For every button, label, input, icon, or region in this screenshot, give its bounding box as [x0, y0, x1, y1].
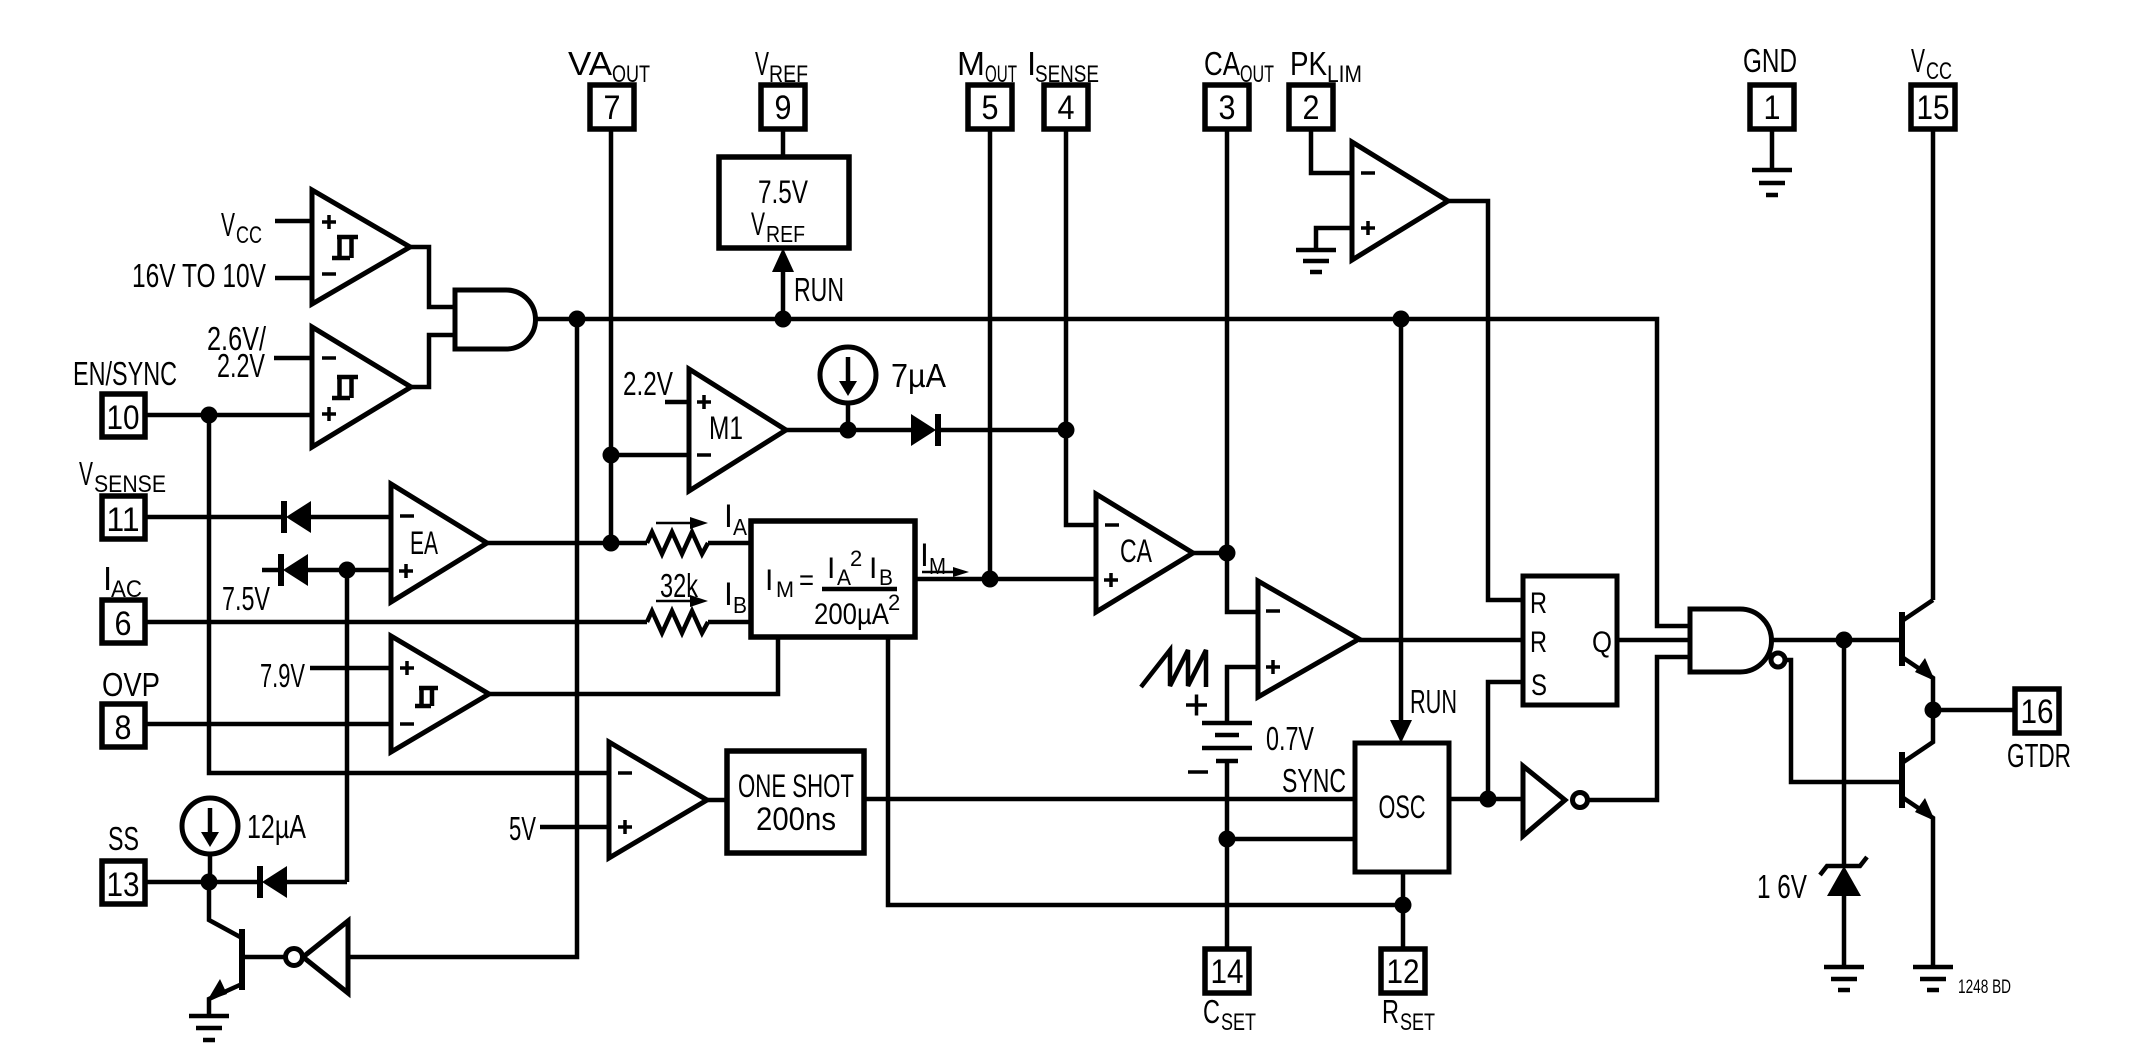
- svg-text:5: 5: [982, 89, 999, 127]
- svg-text:14: 14: [1211, 953, 1244, 991]
- wire pin8 OVP to comparator -: [145, 722, 391, 727]
- label - (battery): [1188, 770, 1208, 774]
- svg-text:Q: Q: [1592, 626, 1612, 659]
- transistor Q3 (SS discharge): [207, 882, 242, 1016]
- svg-text:200µA: 200µA: [814, 598, 889, 631]
- svg-text:7µA: 7µA: [891, 357, 946, 394]
- svg-text:M1: M1: [709, 410, 743, 446]
- svg-text:1: 1: [1764, 89, 1781, 127]
- wire battery to CSET pin14: [1225, 761, 1230, 949]
- wire inverter out to NAND input: [1588, 657, 1690, 800]
- svg-text:12µA: 12µA: [247, 808, 306, 845]
- wire EA output to resistor RA: [487, 541, 647, 546]
- svg-text:=: =: [799, 564, 814, 597]
- svg-text:SS: SS: [108, 820, 139, 857]
- pin 8 OVP: [102, 666, 160, 747]
- svg-text:REF: REF: [766, 221, 805, 247]
- wire OSC bottom to pin12 RSET: [1401, 872, 1406, 949]
- svg-text:1 6V: 1 6V: [1757, 868, 1807, 905]
- svg-text:GND: GND: [1743, 42, 1797, 79]
- wire multiplier IM output to CA +: [915, 577, 1096, 582]
- wire 16V stub: [275, 276, 312, 281]
- PWM comparator: [1258, 581, 1359, 697]
- svg-text:M: M: [776, 577, 794, 602]
- pin 11 VSENSE: [79, 455, 166, 539]
- svg-text:2: 2: [1303, 89, 1320, 127]
- svg-text:EN/SYNC: EN/SYNC: [73, 355, 177, 392]
- svg-text:10: 10: [107, 399, 140, 437]
- current source 12uA: [182, 798, 238, 882]
- pin 7 VAOUT: [568, 45, 650, 129]
- svg-text:200ns: 200ns: [756, 801, 836, 837]
- wire 7.9V stub: [310, 666, 391, 671]
- wire RB to multiplier IB input: [708, 620, 751, 625]
- wire pin5 MOUT vertical: [988, 129, 993, 579]
- label IB: [724, 576, 747, 618]
- svg-text:7: 7: [604, 89, 621, 127]
- wire M1 output: [786, 428, 913, 433]
- transistor Q2 (lower driver): [1902, 710, 1935, 967]
- node EN/SYNC: [201, 407, 218, 424]
- wire Q3 base to inverter bubble: [242, 955, 285, 960]
- transistor Q1 (upper driver): [1902, 600, 1935, 710]
- pin 12 RSET: [1381, 949, 1435, 1036]
- arrow IM: [922, 567, 969, 577]
- ground (PK + input): [1296, 250, 1336, 272]
- svg-text:R: R: [1530, 626, 1547, 659]
- diode D4 (SS clamp): [260, 866, 287, 898]
- svg-text:RUN: RUN: [1410, 683, 1457, 720]
- svg-text:7.5V: 7.5V: [222, 580, 270, 617]
- wire 5V stub: [540, 825, 609, 830]
- wire PK + input to ground: [1316, 228, 1352, 250]
- diode D1 (VSENSE clamp): [284, 501, 311, 533]
- resistor RA: [647, 532, 708, 554]
- svg-text:CA: CA: [1120, 533, 1152, 569]
- svg-text:I: I: [869, 552, 877, 585]
- svg-text:I: I: [765, 564, 773, 597]
- svg-text:2: 2: [888, 590, 900, 615]
- wire pin7 VAOUT vertical: [609, 129, 614, 543]
- wire FF S input: [1488, 682, 1523, 799]
- svg-text:V: V: [221, 206, 235, 243]
- node M1 minus: [603, 447, 620, 464]
- inverter (SS discharge, points left): [286, 921, 349, 993]
- svg-text:5V: 5V: [509, 810, 536, 847]
- svg-text:RUN: RUN: [794, 271, 844, 308]
- svg-text:1248 BD: 1248 BD: [1958, 977, 2011, 998]
- one-shot comparator: [609, 742, 707, 858]
- svg-text:I: I: [724, 576, 733, 612]
- node RUN/VREF: [775, 311, 792, 328]
- wire EN/SYNC vertical to one-shot comp -: [209, 415, 609, 773]
- battery 0.7V: [1202, 723, 1252, 761]
- svg-text:S: S: [1531, 669, 1547, 702]
- svg-text:I: I: [920, 537, 929, 573]
- svg-text:C: C: [1203, 993, 1220, 1030]
- wire OSC output: [1449, 797, 1523, 802]
- node AND out: [569, 311, 586, 328]
- svg-text:SET: SET: [1221, 1009, 1256, 1036]
- svg-text:2: 2: [850, 546, 862, 571]
- wire pin13 SS to node: [144, 880, 209, 885]
- svg-text:CC: CC: [1926, 58, 1952, 85]
- svg-text:6: 6: [115, 605, 132, 643]
- diode D3 (M1 out): [911, 414, 938, 446]
- OSC box: [1355, 743, 1449, 872]
- ground (Q2 emitter): [1913, 967, 1953, 990]
- wire VCC pin15 vertical: [1931, 129, 1936, 600]
- label VCC (U1 + input): [221, 206, 262, 249]
- wire D4 to 7.5V vertical: [287, 880, 347, 885]
- svg-text:2.2V: 2.2V: [623, 365, 673, 402]
- comparator U1 (UVLO 16V TO 10V): [312, 190, 410, 304]
- node OSC out / S: [1480, 791, 1497, 808]
- wire 2.2V stub: [665, 400, 689, 405]
- svg-text:9: 9: [775, 89, 792, 127]
- svg-text:OSC: OSC: [1379, 789, 1426, 825]
- wire U1 output to AND: [410, 247, 455, 307]
- wire pin4 ISENSE vertical to CA -: [1066, 129, 1096, 525]
- inverter (OSC output): [1523, 766, 1588, 836]
- wire pin10 to comparator U2 +: [145, 413, 312, 418]
- svg-text:15: 15: [1917, 89, 1950, 127]
- wire D1 to EA - input: [311, 515, 391, 520]
- wire PK output to FF R top: [1448, 201, 1523, 600]
- svg-text:V: V: [1911, 42, 1925, 79]
- wire inverter input from AND node: [348, 319, 577, 957]
- wire one-shot comp out: [707, 798, 727, 803]
- svg-text:GTDR: GTDR: [2007, 737, 2071, 774]
- wire zener branch: [1842, 640, 1847, 866]
- svg-text:CC: CC: [236, 222, 262, 249]
- node RSET: [1395, 897, 1412, 914]
- wire pin11 to diode D1: [145, 515, 284, 520]
- resistor RB 32k: [647, 611, 708, 633]
- pin 5 MOUT: [957, 45, 1017, 129]
- node EA out: [603, 535, 620, 552]
- wire GTDR to pin16: [1933, 708, 2015, 713]
- wire AND output / RUN bus: [535, 319, 1690, 626]
- wire PWM + to battery: [1227, 667, 1258, 723]
- comparator U2 (EN/SYNC 2.6V/2.2V): [312, 327, 411, 447]
- pin 16 GTDR: [2007, 689, 2071, 774]
- svg-text:2.2V: 2.2V: [217, 347, 265, 384]
- svg-text:V: V: [79, 455, 93, 492]
- wire RUN to OSC: [1390, 319, 1412, 743]
- sawtooth icon: [1141, 650, 1206, 687]
- svg-text:V: V: [751, 206, 765, 242]
- pin 14 CSET: [1203, 949, 1256, 1036]
- svg-text:PK: PK: [1290, 45, 1327, 82]
- comparator OVP: [391, 636, 489, 752]
- svg-text:16: 16: [2021, 693, 2054, 731]
- svg-text:SYNC: SYNC: [1282, 762, 1346, 799]
- svg-text:EA: EA: [410, 525, 438, 561]
- wire multiplier bottom to RSET line: [888, 637, 1403, 905]
- node 7.5V clamp: [339, 562, 356, 579]
- wire CSET to OSC lower input: [1227, 837, 1355, 842]
- node GTDR: [1925, 702, 1942, 719]
- comparator PKLIM: [1352, 142, 1448, 260]
- svg-text:R: R: [1530, 587, 1547, 620]
- node NAND out / zener: [1836, 632, 1853, 649]
- wire SS node to diode D4: [209, 880, 260, 885]
- wire 2.6V stub: [274, 356, 312, 361]
- arrow IA: [656, 517, 708, 529]
- svg-text:16V TO 10V: 16V TO 10V: [132, 257, 266, 294]
- wire RA to multiplier IA input: [708, 541, 751, 546]
- wire FF Q output to NAND: [1617, 638, 1690, 643]
- node 7uA: [840, 422, 857, 439]
- wire 7.5V stub to diode D2: [262, 568, 281, 573]
- ground (pin1): [1752, 170, 1792, 195]
- wire M1 - input: [611, 453, 689, 458]
- diode D2 (7.5V clamp): [281, 554, 308, 586]
- wire NAND output to driver: [1771, 638, 1902, 643]
- svg-text:7.9V: 7.9V: [260, 657, 305, 694]
- error amp EA: [391, 484, 487, 602]
- svg-text:VA: VA: [568, 45, 612, 82]
- wire D3 to ISENSE line: [938, 428, 1066, 433]
- pin 15 VCC: [1911, 42, 1955, 129]
- pin 1 GND: [1743, 42, 1797, 129]
- zener diode 16V: [1820, 857, 1867, 967]
- svg-text:M: M: [957, 45, 985, 82]
- wire pin9 stub: [781, 129, 786, 157]
- NAND gate: [1690, 609, 1772, 672]
- svg-text:4: 4: [1058, 89, 1075, 127]
- svg-text:V: V: [755, 45, 769, 82]
- pin 4 ISENSE: [1027, 45, 1099, 129]
- svg-text:13: 13: [107, 866, 140, 904]
- multiplier box IM: [751, 521, 915, 637]
- wire D2 to EA + input: [308, 568, 391, 573]
- wire PWM output to FF R: [1359, 638, 1523, 643]
- node CSET/OSC: [1219, 831, 1236, 848]
- wire U2 output to AND: [411, 335, 455, 387]
- svg-text:7.5V: 7.5V: [758, 174, 808, 210]
- current amp CA: [1096, 494, 1193, 612]
- svg-text:8: 8: [115, 709, 132, 747]
- svg-text:B: B: [879, 565, 893, 590]
- wire OVP comp output to multiplier bottom: [489, 637, 778, 694]
- svg-text:OVP: OVP: [102, 666, 160, 703]
- svg-text:11: 11: [107, 501, 140, 539]
- pin 2 PKLIM: [1289, 45, 1362, 129]
- svg-text:3: 3: [1219, 89, 1236, 127]
- node ISENSE diode: [1058, 422, 1075, 439]
- wire VCC stub: [275, 219, 312, 224]
- ONE SHOT box: [727, 751, 864, 853]
- svg-text:I: I: [827, 552, 835, 585]
- VREF box 7.5V: [719, 157, 849, 248]
- svg-text:CA: CA: [1204, 45, 1240, 82]
- pin 3 CAOUT: [1204, 45, 1274, 129]
- pin 6 IAC: [102, 560, 145, 643]
- node RUN/OSC: [1393, 311, 1410, 328]
- svg-text:ONE SHOT: ONE SHOT: [738, 768, 854, 804]
- svg-text:M: M: [929, 553, 946, 579]
- label 2.6V/2.2V: [207, 320, 267, 384]
- pin 9 VREF: [755, 45, 808, 129]
- RS flip-flop box: [1523, 576, 1617, 705]
- ground (Q3 emitter): [189, 1016, 229, 1040]
- wire pin6 IAC to resistor RB: [145, 620, 647, 625]
- svg-text:12: 12: [1387, 953, 1420, 991]
- ground (zener): [1824, 967, 1864, 990]
- multiplier amp M1: [689, 369, 786, 491]
- wire pin1 GND stub: [1770, 129, 1775, 170]
- NAND bubble: [1771, 653, 1785, 667]
- wire 7.5V node vertical: [345, 570, 350, 882]
- wire NAND inverted out to lower driver base: [1785, 660, 1902, 782]
- current source 7uA: [820, 347, 876, 430]
- node IM/MOUT: [982, 571, 999, 588]
- svg-text:A: A: [733, 514, 748, 540]
- label IA: [724, 498, 748, 540]
- svg-text:B: B: [733, 592, 747, 618]
- wire one-shot to OSC (SYNC): [864, 797, 1355, 802]
- pin 10 EN/SYNC: [73, 355, 177, 437]
- node CA out: [1219, 545, 1236, 562]
- svg-text:SET: SET: [1400, 1009, 1435, 1036]
- pin 13 SS: [102, 820, 145, 904]
- wire CA output to pin3: [1193, 551, 1227, 556]
- AND gate U3: [455, 290, 536, 349]
- label IM: [920, 537, 946, 579]
- node SS: [201, 874, 218, 891]
- label + (battery): [1186, 695, 1207, 716]
- wire pin2 to PK - input: [1311, 129, 1352, 173]
- svg-text:R: R: [1382, 993, 1399, 1030]
- svg-text:I: I: [724, 498, 733, 534]
- svg-text:0.7V: 0.7V: [1266, 720, 1314, 757]
- wire RUN arrow to VREF box: [772, 248, 794, 319]
- arrow IB: [656, 595, 708, 607]
- wire pin3 CAOUT vertical to PWM -: [1227, 129, 1258, 612]
